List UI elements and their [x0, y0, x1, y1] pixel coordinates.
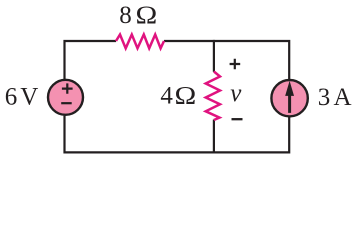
label 8 ohm	[119, 1, 157, 29]
svg-text:A: A	[334, 84, 352, 111]
current source arrow	[286, 82, 294, 112]
wire top-left segment	[65, 41, 117, 80]
voltage source minus sign	[61, 102, 71, 104]
label 4 ohm	[160, 81, 196, 109]
voltage source plus sign	[62, 83, 73, 93]
wire middle branch top	[213, 40, 215, 72]
svg-text:8: 8	[119, 2, 132, 29]
current source I1 circle	[271, 80, 307, 116]
wire top-right segment	[164, 41, 289, 80]
label 6 V	[5, 83, 39, 110]
svg-text:Ω: Ω	[175, 81, 197, 109]
svg-text:V: V	[20, 83, 38, 110]
node v plus mark	[230, 59, 241, 69]
svg-text:v: v	[230, 80, 242, 107]
voltage source V1 circle	[48, 80, 83, 115]
svg-text:Ω: Ω	[136, 1, 158, 29]
svg-text:3: 3	[318, 84, 331, 111]
resistor 8ohm zigzag	[116, 35, 164, 49]
label 3 A	[318, 84, 352, 111]
svg-text:6: 6	[5, 83, 17, 110]
wire bottom	[65, 116, 290, 153]
wire middle branch bottom	[213, 120, 215, 154]
svg-text:4: 4	[160, 83, 173, 110]
node v minus mark	[232, 118, 243, 120]
resistor 4ohm zigzag	[206, 72, 220, 121]
